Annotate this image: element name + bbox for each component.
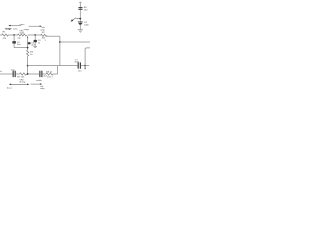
svg-text:stage: stage [24, 28, 30, 31]
svg-text:10u: 10u [78, 71, 83, 73]
svg-text:R7 10k: R7 10k [17, 77, 25, 79]
svg-text:bass: bass [7, 88, 13, 90]
svg-text:treble: treble [36, 79, 42, 82]
svg-text:100n: 100n [74, 62, 80, 64]
svg-text:100n: 100n [84, 25, 90, 27]
svg-text:stage: stage [5, 28, 12, 31]
svg-text:R8 1k: R8 1k [46, 71, 53, 73]
svg-text:input: input [20, 23, 25, 26]
svg-text:5k log: 5k log [19, 82, 26, 84]
svg-text:10k L: 10k L [47, 77, 54, 79]
